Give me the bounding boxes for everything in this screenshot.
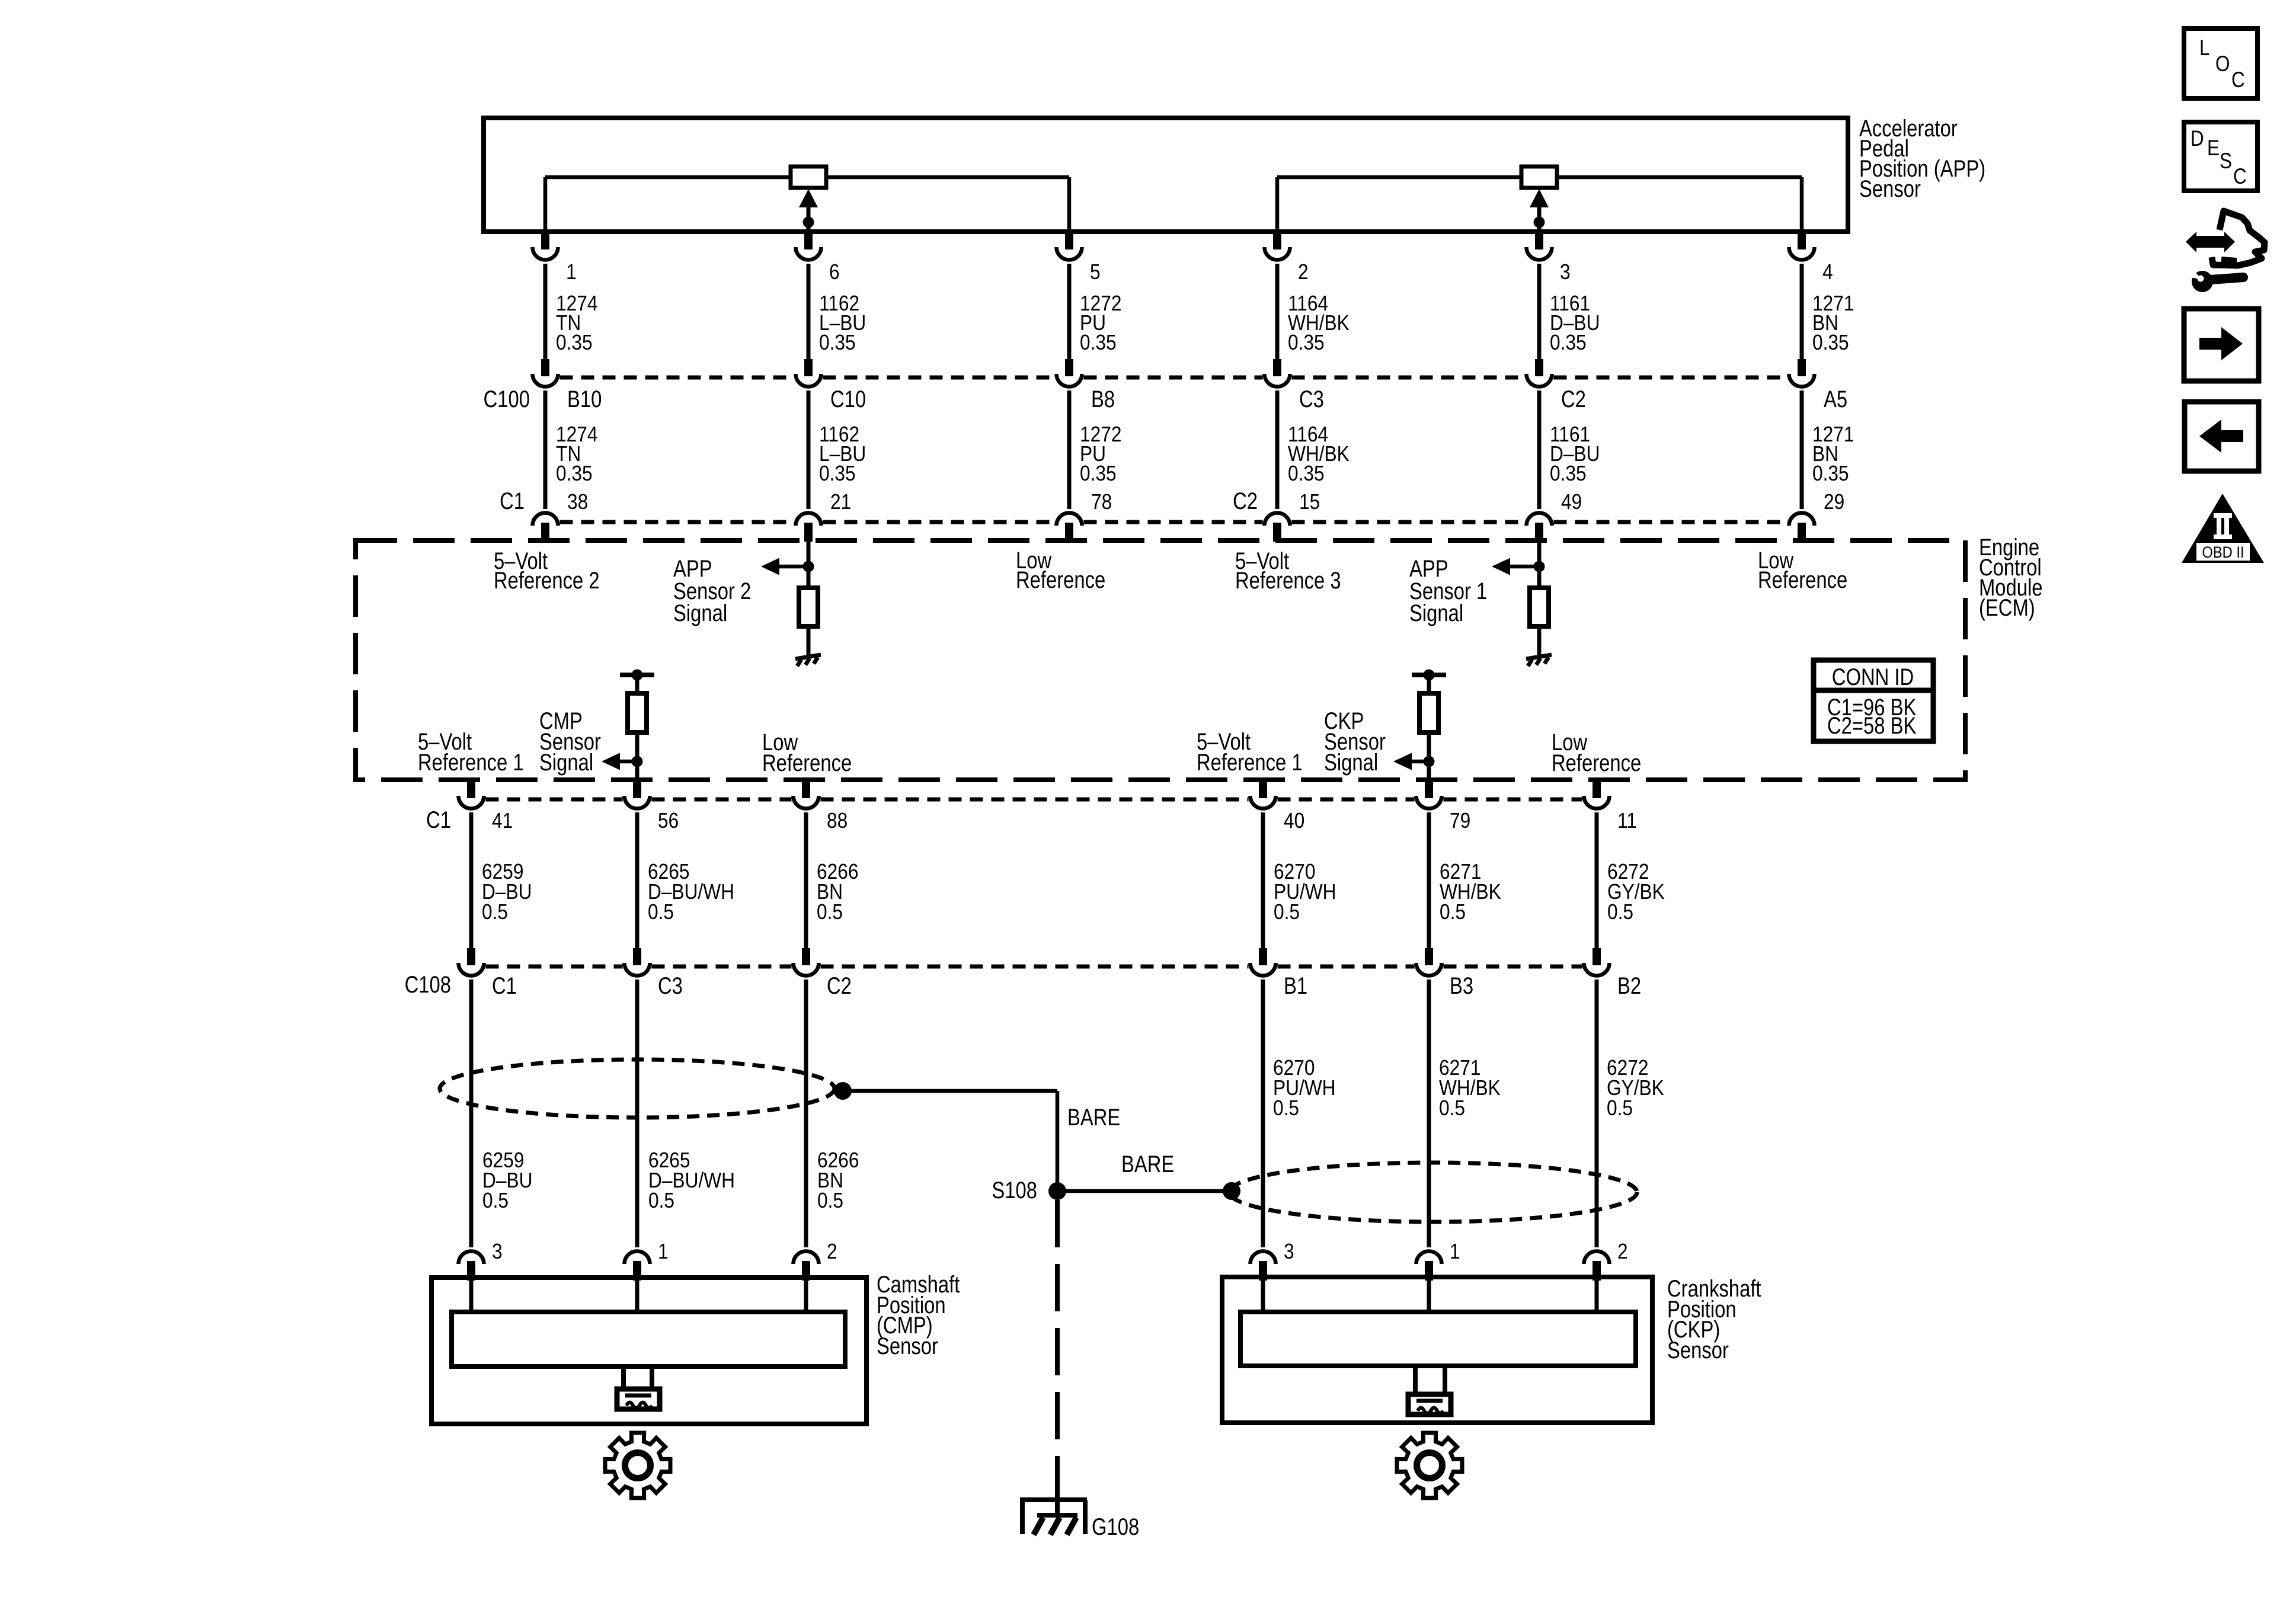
svg-text:0.35: 0.35 bbox=[1812, 462, 1849, 485]
svg-text:C3: C3 bbox=[1299, 386, 1324, 412]
svg-text:1: 1 bbox=[658, 1240, 669, 1263]
connector terminal APP pin 6 bbox=[796, 232, 821, 260]
pin 49 label bbox=[1561, 490, 1582, 514]
wire label 6272 (upper) bbox=[1607, 860, 1665, 924]
ECM bottom terminal pin 88 bbox=[794, 781, 819, 809]
svg-text:40: 40 bbox=[1284, 809, 1304, 833]
svg-text:B2: B2 bbox=[1617, 972, 1641, 999]
signal arrow CMP bbox=[602, 753, 637, 770]
svg-text:Sensor: Sensor bbox=[877, 1333, 938, 1359]
connector C1 label (ECM bottom) bbox=[426, 806, 451, 833]
ECM dashed box bbox=[356, 540, 1965, 780]
connector terminal APP pin 1 bbox=[533, 232, 558, 260]
sensor terminal pin 3 bbox=[1251, 1251, 1276, 1281]
svg-text:0.35: 0.35 bbox=[1080, 462, 1117, 485]
connector C100 label bbox=[484, 386, 530, 412]
ground G108 bbox=[1020, 1485, 1088, 1535]
ECM terminal pin 78 bbox=[1057, 513, 1082, 542]
wire segment APP pin 3 to C100 bbox=[1537, 264, 1542, 360]
wire segment C100 A5 to ECM bbox=[1800, 391, 1804, 509]
ECM terminal pin 15 bbox=[1265, 513, 1290, 542]
pin 6 label bbox=[829, 260, 840, 284]
BARE label (vertical run) bbox=[1067, 1104, 1120, 1131]
connector terminal APP pin 5 bbox=[1057, 232, 1082, 260]
wire segment C108 C1 to sensor bbox=[469, 980, 474, 1247]
pin 3 label bbox=[1284, 1240, 1294, 1263]
svg-text:0.35: 0.35 bbox=[819, 462, 856, 485]
wire supply to resistor CMP bbox=[635, 675, 639, 693]
CMP pigtail legs bbox=[621, 1366, 654, 1387]
potentiometer track APP pot 2 bbox=[1275, 175, 1804, 232]
svg-text:C2: C2 bbox=[1233, 488, 1258, 514]
pin 21 label bbox=[830, 490, 851, 514]
wire segment pin 56 to C108 bbox=[635, 812, 639, 949]
wire label 6271 (lower right) bbox=[1439, 1056, 1501, 1120]
svg-text:5: 5 bbox=[1090, 260, 1101, 284]
connector C108 terminal C1 bbox=[459, 948, 484, 976]
CKP pigtail legs bbox=[1413, 1366, 1447, 1392]
svg-text:0.35: 0.35 bbox=[1812, 331, 1849, 354]
svg-text:C1: C1 bbox=[492, 972, 517, 999]
wire segment APP pin 2 to C100 bbox=[1275, 264, 1280, 360]
pin C2 label bbox=[827, 972, 852, 999]
svg-text:G108: G108 bbox=[1092, 1513, 1139, 1540]
svg-text:0.35: 0.35 bbox=[1288, 462, 1325, 485]
connector C108 terminal B3 bbox=[1416, 948, 1442, 976]
wire segment into sensor 3 bbox=[1261, 1280, 1265, 1314]
label APP Sensor 2 Signal bbox=[673, 555, 751, 626]
wire segment C108 C2 to sensor bbox=[804, 980, 808, 1247]
connector C108 terminal B2 bbox=[1584, 948, 1610, 976]
wire segment into sensor 1 bbox=[635, 1280, 639, 1314]
wire segment into sensor 1 bbox=[1427, 1280, 1431, 1314]
ECM bottom terminal pin 11 bbox=[1584, 781, 1610, 809]
svg-text:C1: C1 bbox=[426, 806, 451, 833]
wire resistor to border CKP bbox=[1427, 732, 1431, 782]
wire segment into sensor 2 bbox=[804, 1280, 808, 1314]
svg-text:88: 88 bbox=[827, 809, 848, 833]
sensor terminal pin 3 bbox=[459, 1251, 484, 1281]
label CMP Sensor Signal bbox=[539, 708, 601, 776]
svg-text:B10: B10 bbox=[567, 386, 602, 412]
wire resistor to border CMP bbox=[635, 732, 639, 782]
potentiometer track APP pot 1 bbox=[543, 175, 1072, 232]
ground ECM APP sensor 1 bbox=[1526, 655, 1552, 666]
svg-text:0.5: 0.5 bbox=[482, 1189, 509, 1212]
svg-text:56: 56 bbox=[658, 809, 679, 833]
C1=96 BK label bbox=[1827, 694, 1916, 721]
sensor terminal pin 2 bbox=[794, 1251, 819, 1281]
wiper arrow APP pot 2 bbox=[1530, 189, 1549, 232]
wire segment into sensor 3 bbox=[469, 1280, 474, 1314]
junction dot APP pot 1 wiper bbox=[803, 217, 814, 228]
svg-text:OBD II: OBD II bbox=[2202, 544, 2244, 562]
CKP sensor box bbox=[1222, 1277, 1652, 1423]
ECM connector row C1/C2 dashed line bbox=[560, 520, 1787, 524]
pin 29 label bbox=[1824, 490, 1844, 514]
inline connector C100 dashed line bbox=[560, 376, 1787, 380]
ground wire S108 to G108 (dashed) bbox=[1055, 1200, 1060, 1486]
wire label 6270 (upper) bbox=[1274, 860, 1336, 924]
C2=58 BK label bbox=[1827, 712, 1916, 739]
drain wire CMP shield to S108 bbox=[843, 1089, 1059, 1191]
wire label 1162 (upper) bbox=[819, 292, 866, 354]
svg-text:B1: B1 bbox=[1284, 972, 1307, 999]
pin 11 label bbox=[1617, 809, 1637, 833]
5V supply bar CKP bbox=[1412, 673, 1446, 677]
wire label 1164 (lower) bbox=[1288, 422, 1350, 485]
svg-text:4: 4 bbox=[1822, 260, 1833, 284]
resistor ECM APP sensor 1 bbox=[1530, 588, 1549, 626]
wire label 1271 (upper) bbox=[1812, 292, 1854, 354]
svg-text:0.5: 0.5 bbox=[817, 1189, 843, 1212]
resistor ECM CKP signal bbox=[1419, 693, 1438, 732]
icon forward arrow box bbox=[2184, 309, 2259, 381]
CKP sensor element bbox=[1240, 1312, 1636, 1366]
pin B3 label bbox=[1450, 972, 1473, 999]
svg-text:Reference: Reference bbox=[1758, 566, 1847, 593]
label 5-Volt Reference 3 bbox=[1235, 548, 1341, 594]
pin B1 label bbox=[1284, 972, 1307, 999]
svg-text:Signal: Signal bbox=[1409, 600, 1463, 626]
svg-text:0.35: 0.35 bbox=[1080, 331, 1117, 354]
pin 38 label bbox=[567, 490, 588, 514]
svg-text:1: 1 bbox=[566, 260, 577, 284]
wire label 6266 (lower left) bbox=[817, 1148, 859, 1212]
wire ECM pin 49 internal bbox=[1537, 542, 1542, 588]
svg-text:0.5: 0.5 bbox=[1274, 900, 1300, 924]
label APP Sensor 1 Signal bbox=[1409, 555, 1487, 626]
wire segment C100 C3 to ECM bbox=[1275, 391, 1280, 509]
svg-text:0.35: 0.35 bbox=[556, 331, 593, 354]
drain wire S108 to CKP shield bbox=[1057, 1189, 1232, 1193]
CONN ID box bbox=[1814, 660, 1933, 741]
svg-text:Reference 3: Reference 3 bbox=[1235, 567, 1341, 594]
pin C1 label bbox=[492, 972, 517, 999]
wire segment C108 B2 to sensor bbox=[1595, 980, 1599, 1247]
wire resistor to ground (right) bbox=[1537, 626, 1542, 655]
splice S108 bbox=[1048, 1182, 1066, 1200]
svg-text:0.35: 0.35 bbox=[556, 462, 593, 485]
svg-text:C108: C108 bbox=[405, 971, 451, 998]
connector terminal APP pin 2 bbox=[1265, 232, 1290, 260]
icon LOC box bbox=[2184, 28, 2257, 98]
wire label 6259 (lower left) bbox=[482, 1148, 532, 1212]
pin B8 label bbox=[1091, 386, 1115, 412]
svg-text:49: 49 bbox=[1561, 490, 1582, 514]
connector C108 label bbox=[405, 971, 451, 998]
wire label 1272 (upper) bbox=[1080, 292, 1121, 354]
wire segment into sensor 2 bbox=[1595, 1280, 1599, 1314]
wire segment C108 B1 to sensor bbox=[1261, 980, 1265, 1247]
wire label 1272 (lower) bbox=[1080, 422, 1121, 485]
wire segment C108 B3 to sensor bbox=[1427, 980, 1431, 1247]
wire label 6266 (upper) bbox=[817, 860, 858, 924]
svg-text:E: E bbox=[2207, 136, 2220, 161]
wire label 1164 (upper) bbox=[1288, 292, 1350, 354]
signal arrow CKP bbox=[1393, 753, 1429, 770]
sensor terminal pin 2 bbox=[1584, 1251, 1610, 1281]
ECM terminal pin 29 bbox=[1789, 513, 1815, 542]
pin 5 label bbox=[1090, 260, 1101, 284]
svg-text:C: C bbox=[2233, 165, 2247, 189]
wire label 6271 (upper) bbox=[1440, 860, 1501, 924]
svg-text:Sensor: Sensor bbox=[1859, 175, 1921, 202]
svg-text:0.35: 0.35 bbox=[1550, 462, 1587, 485]
pin C3 label bbox=[658, 972, 683, 999]
label Crankshaft Position (CKP) Sensor bbox=[1667, 1275, 1761, 1363]
label 5-Volt Reference 2 bbox=[494, 548, 600, 594]
pin 1 label bbox=[658, 1240, 669, 1263]
connector C100 terminal C10 bbox=[796, 359, 821, 387]
wire segment C100 C10 to ECM bbox=[807, 391, 811, 509]
svg-text:(ECM): (ECM) bbox=[1979, 594, 2035, 621]
pin 79 label bbox=[1450, 809, 1470, 833]
pin 41 label bbox=[492, 809, 513, 833]
svg-text:2: 2 bbox=[1298, 260, 1309, 284]
wire segment C100 B8 to ECM bbox=[1067, 391, 1072, 509]
ECM bottom terminal pin 40 bbox=[1251, 781, 1276, 809]
svg-text:C3: C3 bbox=[658, 972, 683, 999]
wire segment C100 C2 to ECM bbox=[1537, 391, 1542, 509]
connector C2 label (ECM top) bbox=[1233, 488, 1258, 514]
svg-text:21: 21 bbox=[830, 490, 851, 514]
connector C100 terminal B8 bbox=[1057, 359, 1082, 387]
sensor terminal pin 1 bbox=[625, 1251, 650, 1281]
wiper contact box APP pot 1 bbox=[791, 167, 826, 188]
wire label 1274 (upper) bbox=[556, 292, 597, 354]
svg-text:Signal: Signal bbox=[673, 600, 727, 626]
label Engine Control Module (ECM) bbox=[1979, 534, 2043, 621]
svg-text:0.5: 0.5 bbox=[482, 900, 508, 924]
wire segment pin 41 to C108 bbox=[469, 812, 474, 949]
svg-text:Reference 1: Reference 1 bbox=[1197, 749, 1303, 776]
label 5-Volt Reference 1 (CKP) bbox=[1197, 728, 1303, 776]
pin 3 label bbox=[1560, 260, 1571, 284]
svg-text:2: 2 bbox=[827, 1240, 837, 1263]
svg-text:BARE: BARE bbox=[1121, 1151, 1174, 1177]
wire segment pin 40 to C108 bbox=[1261, 812, 1265, 949]
svg-text:C1: C1 bbox=[500, 488, 525, 514]
pin B10 label bbox=[567, 386, 602, 412]
pin A5 label bbox=[1824, 386, 1847, 412]
resistor ECM APP sensor 2 bbox=[799, 588, 818, 626]
CMP sensor box bbox=[431, 1278, 866, 1424]
junction dot shield CKP bbox=[1223, 1182, 1240, 1200]
svg-text:C2: C2 bbox=[827, 972, 852, 999]
wire resistor to ground bbox=[807, 626, 811, 655]
wire label 6265 (lower left) bbox=[648, 1148, 735, 1212]
ECM terminal pin 38 bbox=[533, 513, 558, 542]
wire segment pin 79 to C108 bbox=[1427, 812, 1431, 949]
svg-text:C10: C10 bbox=[830, 386, 866, 412]
svg-text:0.5: 0.5 bbox=[1607, 1096, 1633, 1120]
label Accelerator Pedal Position (APP) Sensor bbox=[1859, 115, 1985, 202]
wire label 1161 (lower) bbox=[1550, 422, 1600, 485]
wire supply to resistor CKP bbox=[1427, 675, 1431, 693]
svg-text:11: 11 bbox=[1617, 809, 1637, 833]
APP sensor box outline bbox=[484, 118, 1848, 232]
svg-text:L: L bbox=[2199, 36, 2209, 60]
label Low Reference (pin 78) bbox=[1016, 547, 1105, 593]
wiper arrow APP pot 1 bbox=[799, 189, 818, 232]
label Low Reference (pin 29) bbox=[1758, 547, 1847, 593]
svg-text:29: 29 bbox=[1824, 490, 1844, 514]
wire label 6272 (lower right) bbox=[1607, 1056, 1664, 1120]
wire segment C108 C3 to sensor bbox=[635, 980, 639, 1247]
wire label 1161 (upper) bbox=[1550, 292, 1600, 354]
wire ECM pin 21 internal bbox=[807, 542, 811, 588]
wire label 1274 (lower) bbox=[556, 422, 597, 485]
svg-text:C100: C100 bbox=[484, 386, 530, 412]
svg-text:0.35: 0.35 bbox=[1288, 331, 1325, 354]
svg-text:Reference: Reference bbox=[762, 750, 852, 776]
svg-text:38: 38 bbox=[567, 490, 588, 514]
ECM bottom terminal pin 56 bbox=[625, 781, 650, 809]
pin 78 label bbox=[1091, 490, 1112, 514]
gear icon CMP bbox=[605, 1433, 670, 1498]
wire segment APP pin 5 to C100 bbox=[1067, 264, 1072, 360]
svg-text:3: 3 bbox=[1560, 260, 1571, 284]
junction dot APP sensor 1 signal bbox=[1534, 561, 1545, 572]
svg-text:15: 15 bbox=[1299, 490, 1320, 514]
svg-text:3: 3 bbox=[492, 1240, 503, 1263]
pin 40 label bbox=[1284, 809, 1304, 833]
G108 label bbox=[1092, 1513, 1139, 1540]
inline connector C108 dashed line bbox=[486, 965, 1582, 969]
junction dot APP sensor 2 signal bbox=[803, 561, 814, 572]
pin B2 label bbox=[1617, 972, 1641, 999]
pin 56 label bbox=[658, 809, 679, 833]
svg-text:0.5: 0.5 bbox=[1439, 1096, 1465, 1120]
signal arrow APP sensor 2 bbox=[761, 558, 808, 575]
resistor ECM CMP signal bbox=[628, 693, 647, 732]
wire label 1271 (lower) bbox=[1812, 422, 1854, 485]
svg-text:B3: B3 bbox=[1450, 972, 1473, 999]
wire segment APP pin 6 to C100 bbox=[807, 264, 811, 360]
svg-text:S: S bbox=[2220, 149, 2232, 174]
connector C108 terminal B1 bbox=[1251, 948, 1276, 976]
CMP sensor element bbox=[452, 1312, 845, 1366]
connector C100 terminal B10 bbox=[533, 359, 558, 387]
icon vehicle data transfer with wrench bbox=[2182, 211, 2265, 292]
icon OBD II triangle bbox=[2182, 494, 2264, 563]
junction dot CKP signal bbox=[1424, 756, 1435, 767]
svg-text:0.5: 0.5 bbox=[1440, 900, 1466, 924]
pin 2 label bbox=[1617, 1240, 1628, 1263]
svg-text:3: 3 bbox=[1284, 1240, 1294, 1263]
svg-text:C: C bbox=[2231, 68, 2245, 92]
wire label 6259 (upper) bbox=[482, 860, 532, 924]
label 5-Volt Reference 1 (CMP) bbox=[418, 728, 524, 776]
connector terminal APP pin 4 bbox=[1789, 232, 1815, 260]
pin C10 label bbox=[830, 386, 866, 412]
pin C2 label bbox=[1561, 386, 1586, 412]
pin 1 label bbox=[566, 260, 577, 284]
svg-text:C2=58 BK: C2=58 BK bbox=[1827, 712, 1916, 739]
svg-text:Reference: Reference bbox=[1552, 750, 1641, 776]
label CKP Sensor Signal bbox=[1324, 708, 1386, 776]
wire segment APP pin 4 to C100 bbox=[1800, 264, 1804, 360]
pin 4 label bbox=[1822, 260, 1833, 284]
wire segment APP pin 1 to C100 bbox=[543, 264, 548, 360]
junction dot APP pot 2 wiper bbox=[1534, 217, 1545, 228]
label Low Reference (CMP) bbox=[762, 729, 852, 776]
svg-text:C2: C2 bbox=[1561, 386, 1586, 412]
svg-text:S108: S108 bbox=[992, 1177, 1037, 1204]
junction dot CKP supply bbox=[1424, 670, 1435, 681]
icon back arrow box bbox=[2185, 402, 2259, 471]
wire label 6270 (lower right) bbox=[1273, 1056, 1336, 1120]
shield ellipse CMP drain bbox=[440, 1060, 834, 1118]
svg-text:1: 1 bbox=[1450, 1240, 1460, 1263]
svg-text:BARE: BARE bbox=[1067, 1104, 1120, 1131]
wire segment C100 B10 to ECM bbox=[543, 391, 548, 509]
icon DESC box bbox=[2184, 122, 2257, 191]
svg-text:78: 78 bbox=[1091, 490, 1112, 514]
wire segment pin 11 to C108 bbox=[1595, 812, 1599, 949]
BARE label (horizontal run) bbox=[1121, 1151, 1174, 1177]
svg-text:0.5: 0.5 bbox=[817, 900, 843, 924]
5V supply bar CMP bbox=[620, 673, 654, 677]
svg-text:CONN ID: CONN ID bbox=[1832, 664, 1914, 690]
pin 1 label bbox=[1450, 1240, 1460, 1263]
junction dot CMP supply bbox=[632, 670, 643, 681]
svg-text:0.35: 0.35 bbox=[819, 331, 856, 354]
connector C108 terminal C2 bbox=[794, 948, 819, 976]
connector C100 terminal C2 bbox=[1527, 359, 1552, 387]
connector C1 label (ECM top) bbox=[500, 488, 525, 514]
connector terminal APP pin 3 bbox=[1527, 232, 1552, 260]
ECM terminal pin 21 bbox=[796, 513, 821, 542]
wire label 6265 (upper) bbox=[648, 860, 734, 924]
signal arrow APP sensor 1 bbox=[1492, 558, 1539, 575]
svg-text:0.35: 0.35 bbox=[1550, 331, 1587, 354]
CMP pigtail box bbox=[617, 1389, 660, 1409]
svg-text:0.5: 0.5 bbox=[648, 1189, 674, 1212]
svg-text:Reference 1: Reference 1 bbox=[418, 749, 524, 776]
pin C3 label bbox=[1299, 386, 1324, 412]
connector C100 terminal A5 bbox=[1789, 359, 1815, 387]
CONN ID label bbox=[1832, 664, 1914, 690]
S108 label bbox=[992, 1177, 1037, 1204]
wire label 1162 (lower) bbox=[819, 422, 866, 485]
svg-text:79: 79 bbox=[1450, 809, 1470, 833]
wiper contact box APP pot 2 bbox=[1521, 167, 1557, 188]
svg-text:Reference 2: Reference 2 bbox=[494, 567, 600, 594]
pin 2 label bbox=[827, 1240, 837, 1263]
connector C108 terminal C3 bbox=[625, 948, 650, 976]
svg-text:Reference: Reference bbox=[1016, 566, 1105, 593]
pin 2 label bbox=[1298, 260, 1309, 284]
svg-text:0.5: 0.5 bbox=[1273, 1096, 1299, 1120]
pin 3 label bbox=[492, 1240, 503, 1263]
svg-text:B8: B8 bbox=[1091, 386, 1115, 412]
junction dot shield CMP bbox=[834, 1082, 852, 1100]
svg-text:O: O bbox=[2215, 52, 2230, 76]
svg-text:D: D bbox=[2191, 127, 2204, 151]
svg-text:Signal: Signal bbox=[1324, 749, 1378, 776]
ECM bottom terminal pin 79 bbox=[1416, 781, 1442, 809]
sensor terminal pin 1 bbox=[1416, 1251, 1442, 1281]
svg-text:0.5: 0.5 bbox=[648, 900, 674, 924]
connector C100 terminal C3 bbox=[1265, 359, 1290, 387]
svg-text:41: 41 bbox=[492, 809, 513, 833]
svg-text:2: 2 bbox=[1617, 1240, 1628, 1263]
label Low Reference (CKP) bbox=[1552, 729, 1641, 776]
wire segment pin 88 to C108 bbox=[804, 812, 808, 949]
ECM bottom connector row C1 dashed line bbox=[486, 798, 1582, 802]
